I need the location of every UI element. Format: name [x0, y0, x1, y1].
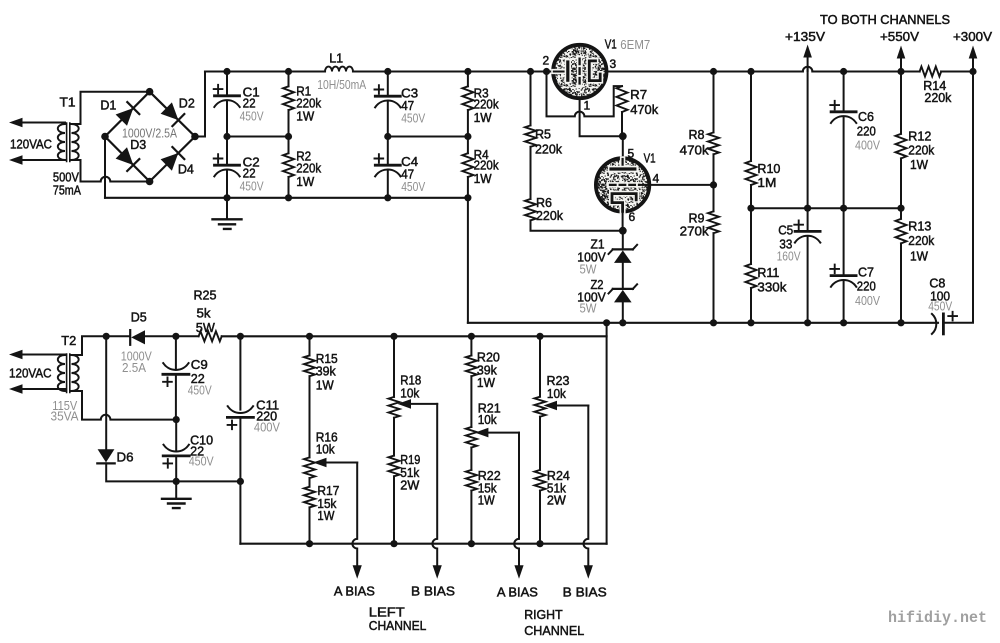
label C4 47 [401, 167, 414, 182]
svg-text:10k: 10k [316, 442, 335, 457]
label R7 470k [630, 102, 658, 117]
wire D6 to bottom link [106, 463, 240, 481]
capacitor C6 [830, 72, 856, 275]
resistor R25 [199, 331, 222, 341]
resistor R11 [746, 264, 757, 323]
label D1 [100, 98, 116, 113]
wire T1 secondary bottom to bridge bottom node (hop over ground drop) [72, 160, 150, 182]
svg-text:220: 220 [857, 279, 876, 294]
svg-text:1W: 1W [474, 110, 493, 125]
label C2 22 [243, 166, 256, 181]
diode D1 [116, 102, 140, 126]
label R15 39k [316, 364, 336, 379]
label R25 [194, 288, 217, 303]
power arrow +300V [969, 46, 978, 73]
label D3 [130, 137, 146, 152]
label D6 [117, 450, 134, 465]
svg-text:R10: R10 [757, 161, 780, 176]
label 10H/50mA [317, 77, 366, 92]
label R21 10k [478, 412, 497, 427]
node dot R9/bus [710, 319, 717, 326]
label C6 [858, 109, 874, 124]
label C3 [401, 86, 418, 101]
node dot bridge right [191, 133, 199, 141]
label C1 450V [240, 109, 264, 124]
svg-text:TO BOTH CHANNELS: TO BOTH CHANNELS [820, 12, 950, 27]
label D5 2.5A [122, 360, 146, 375]
label D2 [179, 96, 195, 111]
svg-text:C6: C6 [858, 109, 874, 124]
svg-text:4: 4 [653, 172, 660, 186]
svg-text:120VAC: 120VAC [9, 366, 52, 381]
pin label 6 [629, 210, 636, 224]
label RIGHT [524, 607, 563, 622]
label R1 [296, 83, 311, 98]
resistor R2 [283, 137, 294, 198]
wire Z1 to Z2 [622, 263, 624, 289]
svg-text:CHANNEL: CHANNEL [369, 618, 427, 633]
arrow A BIAS right [514, 565, 523, 579]
label R4 1W [474, 171, 493, 186]
wire pin6 down [622, 211, 624, 230]
label C11 400V [254, 420, 280, 435]
label R20 1W [477, 375, 496, 390]
label C9 [191, 357, 208, 372]
label R12 [908, 128, 931, 143]
node dot R10/R11 mid [747, 205, 754, 212]
node dot R23 top [536, 333, 543, 340]
label R2 [296, 149, 311, 164]
label 120VAC (T1 primary) [10, 137, 52, 152]
pin label 4 [653, 172, 660, 186]
svg-text:R13: R13 [908, 219, 931, 234]
svg-text:hifidiy.net: hifidiy.net [888, 609, 987, 627]
label R24 2W [547, 492, 567, 507]
label CHANNEL (left) [369, 618, 427, 633]
wire R16 wiper to A-bias (hop over bus) [352, 463, 357, 566]
resistor R13 [896, 219, 907, 323]
node dot R15 top [306, 333, 313, 340]
label Z2 100V [577, 289, 606, 304]
label C5 160V [777, 248, 801, 263]
wire Z bus (y=323) [468, 322, 938, 324]
wire Z2 to Z bus [622, 302, 624, 322]
svg-text:6EM7: 6EM7 [620, 37, 650, 52]
svg-text:450V: 450V [401, 179, 425, 194]
node dot R11/bus [747, 319, 754, 326]
diode D5 [130, 330, 145, 345]
label C1 [243, 85, 260, 100]
node dot bridge left [101, 133, 109, 141]
wire bias bottom bus [240, 543, 606, 545]
label C6 220 [857, 123, 876, 138]
svg-text:T2: T2 [61, 333, 76, 348]
wire D6 branch upper [105, 336, 107, 449]
svg-text:39k: 39k [316, 364, 336, 379]
resistor R15 [304, 336, 315, 457]
wire T2 secondary bottom (hop over D6 wire) [72, 391, 177, 420]
label R9 270k [680, 224, 710, 239]
label R14 220k [924, 90, 951, 105]
label +135V [785, 29, 825, 44]
label R13 [908, 219, 931, 234]
label R12 1W [910, 157, 929, 172]
node dot bridge bottom [146, 178, 154, 186]
wire R21 wiper to A-bias right (hop over bus) [514, 433, 519, 565]
svg-text:1W: 1W [477, 375, 496, 390]
label C8 450V [928, 299, 952, 314]
label R15 [316, 351, 338, 366]
label R25 5W [196, 320, 216, 335]
svg-text:75mA: 75mA [53, 183, 81, 198]
label R16 10k [316, 442, 335, 457]
label R15 1W [316, 378, 335, 393]
svg-text:R25: R25 [194, 288, 217, 303]
svg-text:+135V: +135V [785, 29, 825, 44]
transformer T2 [9, 350, 79, 394]
wire R18 wiper to B-bias (hop over bus) [432, 404, 437, 565]
label R1 220k [296, 95, 321, 110]
label Z2 5W [580, 301, 598, 316]
svg-text:450V: 450V [240, 178, 264, 193]
node dot rail/R1 [285, 68, 292, 75]
node dot R7/pin1/pin5 [619, 132, 627, 140]
wire ground bus (top section) [105, 197, 468, 199]
tube V1 lower section [596, 158, 649, 211]
resistor R3 [462, 72, 473, 137]
svg-text:D6: D6 [117, 450, 134, 465]
bridge diamond wires [105, 92, 195, 182]
label TO BOTH CHANNELS [820, 12, 950, 27]
diode D2 [161, 102, 185, 126]
wire pin1 to R7 bottom node [580, 98, 623, 136]
label R9 [689, 210, 705, 225]
node dot rail/C1 [223, 68, 230, 75]
label C5 [778, 223, 793, 238]
label C8 100 [930, 288, 950, 303]
node dot R17/bus [306, 540, 313, 547]
svg-text:R8: R8 [689, 127, 705, 142]
resistor R7 [617, 86, 628, 136]
node dot C5/208 line [804, 205, 811, 212]
label R22 [478, 468, 501, 483]
node dot pin6/R6 [619, 227, 627, 235]
svg-text:D1: D1 [100, 98, 116, 113]
svg-text:450V: 450V [928, 299, 952, 314]
svg-text:B BIAS: B BIAS [563, 585, 607, 600]
svg-text:270k: 270k [680, 224, 710, 239]
arrow B BIAS right [584, 565, 593, 579]
resistor R1 [283, 72, 294, 137]
capacitor C3 [375, 72, 401, 137]
node dot mid R1R2 [285, 133, 292, 140]
transformer T1 [9, 118, 79, 165]
resistor R18 pot [389, 336, 438, 417]
node dot rail/R3 [464, 68, 471, 75]
label D5 1000V [121, 349, 152, 364]
svg-text:+550V: +550V [880, 29, 919, 44]
svg-text:CHANNEL: CHANNEL [524, 623, 584, 638]
label R5 [535, 127, 551, 142]
capacitor C4 [375, 137, 401, 198]
node dot R20 top [468, 333, 475, 340]
svg-text:160V: 160V [777, 248, 801, 263]
potentiometer R21 [466, 427, 519, 448]
label R2 220k [296, 161, 321, 176]
label Z1 [591, 237, 605, 252]
label R19 2W [400, 478, 420, 493]
svg-text:10k: 10k [478, 412, 497, 427]
resistor R20 [466, 336, 477, 427]
svg-text:1: 1 [584, 99, 591, 113]
label V1 (lower tube) [644, 151, 656, 166]
label 500V [53, 170, 79, 185]
svg-text:C7: C7 [858, 264, 874, 279]
label D4 [178, 162, 194, 177]
label R18 [400, 373, 421, 388]
diode D3 [116, 147, 140, 171]
svg-text:V1: V1 [644, 151, 656, 166]
svg-text:A BIAS: A BIAS [334, 584, 375, 599]
svg-text:1W: 1W [296, 174, 315, 189]
ground symbol (bias section) [162, 481, 191, 508]
label A BIAS left [334, 584, 375, 599]
wire +135V column (crosses rail via hop) [807, 67, 809, 230]
svg-text:D5: D5 [131, 310, 147, 325]
power arrow +550V [897, 46, 906, 73]
label C7 400V [855, 293, 880, 308]
node dot rail/+550V [897, 68, 904, 75]
svg-text:L1: L1 [329, 50, 343, 65]
svg-text:400V: 400V [254, 420, 280, 435]
label R4 [474, 147, 489, 162]
resistor R12 [896, 72, 907, 219]
label T1 [60, 95, 76, 110]
svg-text:R11: R11 [757, 265, 779, 280]
label R4 220k [474, 158, 499, 173]
wire +300V column down to C8 [943, 72, 973, 323]
label R17 1W [317, 508, 335, 523]
label R8 470k [680, 142, 710, 157]
svg-text:450V: 450V [240, 109, 264, 124]
label R6 220k [536, 208, 563, 223]
node dot C9/C10 junction [173, 416, 180, 423]
node dot Z2/bus [619, 319, 626, 326]
label Z1 100V [577, 250, 606, 265]
resistor R5 [525, 72, 536, 200]
label C1 22 [243, 96, 256, 111]
label R11 [757, 265, 779, 280]
diode D6 [97, 449, 114, 463]
node dot R19/bus [390, 540, 397, 547]
label R18 10k [400, 386, 419, 401]
node dot rail/R5 [527, 68, 534, 75]
label R16 [316, 429, 338, 444]
label 75mA [53, 183, 81, 198]
node dot rail/C6 [840, 68, 847, 75]
label R12 220k [908, 142, 934, 157]
wire rail to R7 top (hop over pin1 wire) [547, 72, 623, 117]
wire mid link C3C4-R3R4 [388, 136, 468, 138]
svg-text:2W: 2W [547, 492, 567, 507]
label C11 220 [256, 409, 277, 424]
inductor L1 label [329, 50, 343, 65]
resistor R24 [535, 417, 546, 544]
resistor R9 [708, 211, 719, 322]
svg-text:1W: 1W [317, 508, 335, 523]
node dot mid R3R4 [464, 133, 471, 140]
svg-text:450V: 450V [189, 454, 214, 469]
svg-text:5k: 5k [197, 305, 212, 320]
svg-text:220k: 220k [908, 142, 934, 157]
node dot bridge top [146, 88, 154, 96]
svg-text:2.5A: 2.5A [122, 360, 146, 375]
label C2 [243, 155, 260, 170]
label 115V [52, 398, 77, 413]
wire main B+ rail with L1 and hop [205, 67, 973, 72]
node dot rail/grid wire [543, 68, 550, 75]
node dot bias/D6 [103, 333, 110, 340]
label R17 [317, 483, 339, 498]
wire bias return vertical [606, 323, 608, 544]
label R5 220k [535, 142, 562, 157]
node dot R18 top [390, 333, 397, 340]
svg-text:5W: 5W [580, 301, 598, 316]
svg-text:220k: 220k [908, 233, 934, 248]
wire pin6 node to Z1 [622, 231, 624, 249]
resistor R14 [920, 67, 942, 77]
zener Z2 [609, 284, 638, 302]
label R23 10k [547, 386, 566, 401]
label R13 220k [908, 233, 934, 248]
capacitor C2 [214, 137, 240, 198]
wire pin4 to R8 column [639, 184, 714, 186]
arrow B BIAS left [433, 565, 442, 579]
label R8 [689, 127, 705, 142]
label C7 [858, 264, 874, 279]
node dot gnd C4 [384, 194, 391, 201]
node dot mid C1C2 [223, 133, 230, 140]
svg-text:5W: 5W [580, 262, 598, 277]
svg-text:400V: 400V [855, 138, 880, 153]
wire mid link C1C2-R1R2 [227, 136, 289, 138]
node dot rail/R10 [747, 68, 754, 75]
svg-text:470k: 470k [630, 102, 658, 117]
svg-text:10k: 10k [400, 386, 419, 401]
svg-text:10H/50mA: 10H/50mA [317, 77, 366, 92]
label R6 [536, 195, 552, 210]
svg-text:10k: 10k [547, 386, 566, 401]
label 120VAC (T2 primary) [9, 366, 52, 381]
label R24 [547, 468, 570, 483]
capacitor C9 [163, 336, 189, 419]
label 1000V/2.5A (bridge rating) [122, 126, 177, 141]
svg-text:220k: 220k [924, 90, 951, 105]
svg-text:450V: 450V [188, 383, 212, 398]
svg-text:1W: 1W [478, 492, 496, 507]
svg-text:6: 6 [629, 210, 636, 224]
node dot gnd R4 [464, 194, 471, 201]
capacitor C5 [794, 220, 820, 322]
capacitor C7 [830, 265, 856, 323]
label C4 [401, 154, 418, 169]
label R19 [400, 452, 420, 467]
svg-text:1W: 1W [296, 109, 315, 124]
resistor R8 [708, 72, 719, 212]
tube V1 upper section [553, 45, 606, 98]
svg-text:2: 2 [543, 54, 550, 68]
label 35VA [51, 409, 79, 424]
label C11 [256, 397, 279, 412]
node dot gnd R2 [285, 194, 292, 201]
label R11 330k [757, 280, 787, 295]
label R19 51k [400, 465, 419, 480]
node dot C10/ground [173, 478, 180, 485]
capacitor C1 [214, 72, 240, 137]
svg-text:B BIAS: B BIAS [411, 584, 455, 599]
label R7 [630, 87, 647, 102]
label Z2 [591, 277, 604, 292]
resistor R10 [746, 72, 757, 265]
svg-text:RIGHT: RIGHT [524, 607, 563, 622]
wire bridge right node to B+ rail [195, 72, 205, 137]
svg-text:T1: T1 [60, 95, 76, 110]
label C10 450V [189, 454, 214, 469]
label R13 1W [910, 249, 929, 264]
label R14 [923, 78, 946, 93]
svg-text:220: 220 [857, 123, 876, 138]
label CHANNEL (right) [524, 623, 584, 638]
ground symbol (top section) [213, 198, 242, 229]
label R17 15k [317, 496, 336, 511]
label Z1 5W [580, 262, 598, 277]
label C8 [929, 275, 945, 290]
wire R4 ground-bus down to Z bus [467, 198, 469, 323]
label R1 1W [296, 109, 315, 124]
node dot bias/C9 [172, 333, 179, 340]
label R20 39k [477, 363, 497, 378]
svg-text:450V: 450V [401, 110, 425, 125]
resistor R23 pot [535, 336, 589, 416]
pin label 2 [543, 54, 550, 68]
arrow A BIAS left [353, 565, 362, 579]
node dot rail/C3 [384, 68, 391, 75]
node dot mid C3C4 [384, 133, 391, 140]
label C3 450V [401, 110, 425, 125]
svg-text:2W: 2W [400, 478, 420, 493]
svg-text:1M: 1M [757, 175, 776, 190]
svg-text:220k: 220k [535, 142, 562, 157]
label R23 [547, 373, 570, 388]
svg-text:D2: D2 [179, 96, 195, 111]
node dot R22/bus [468, 540, 475, 547]
svg-text:400V: 400V [855, 293, 880, 308]
node dot C7/bus [840, 319, 847, 326]
wire R23 wiper to B-bias right (hop over bus) [584, 406, 589, 566]
node dot rail/R8 [710, 68, 717, 75]
svg-text:C5: C5 [778, 223, 793, 238]
svg-text:R5: R5 [535, 127, 551, 142]
capacitor C8 [932, 312, 957, 334]
svg-text:R12: R12 [908, 128, 931, 143]
label R10 1M [757, 175, 776, 190]
wire bias top line segment 3 [222, 335, 607, 337]
label C9 450V [188, 383, 212, 398]
label B BIAS right [563, 585, 607, 600]
label B BIAS left [411, 584, 455, 599]
wire bias top line segment 1 [106, 335, 128, 337]
label +550V [880, 29, 919, 44]
